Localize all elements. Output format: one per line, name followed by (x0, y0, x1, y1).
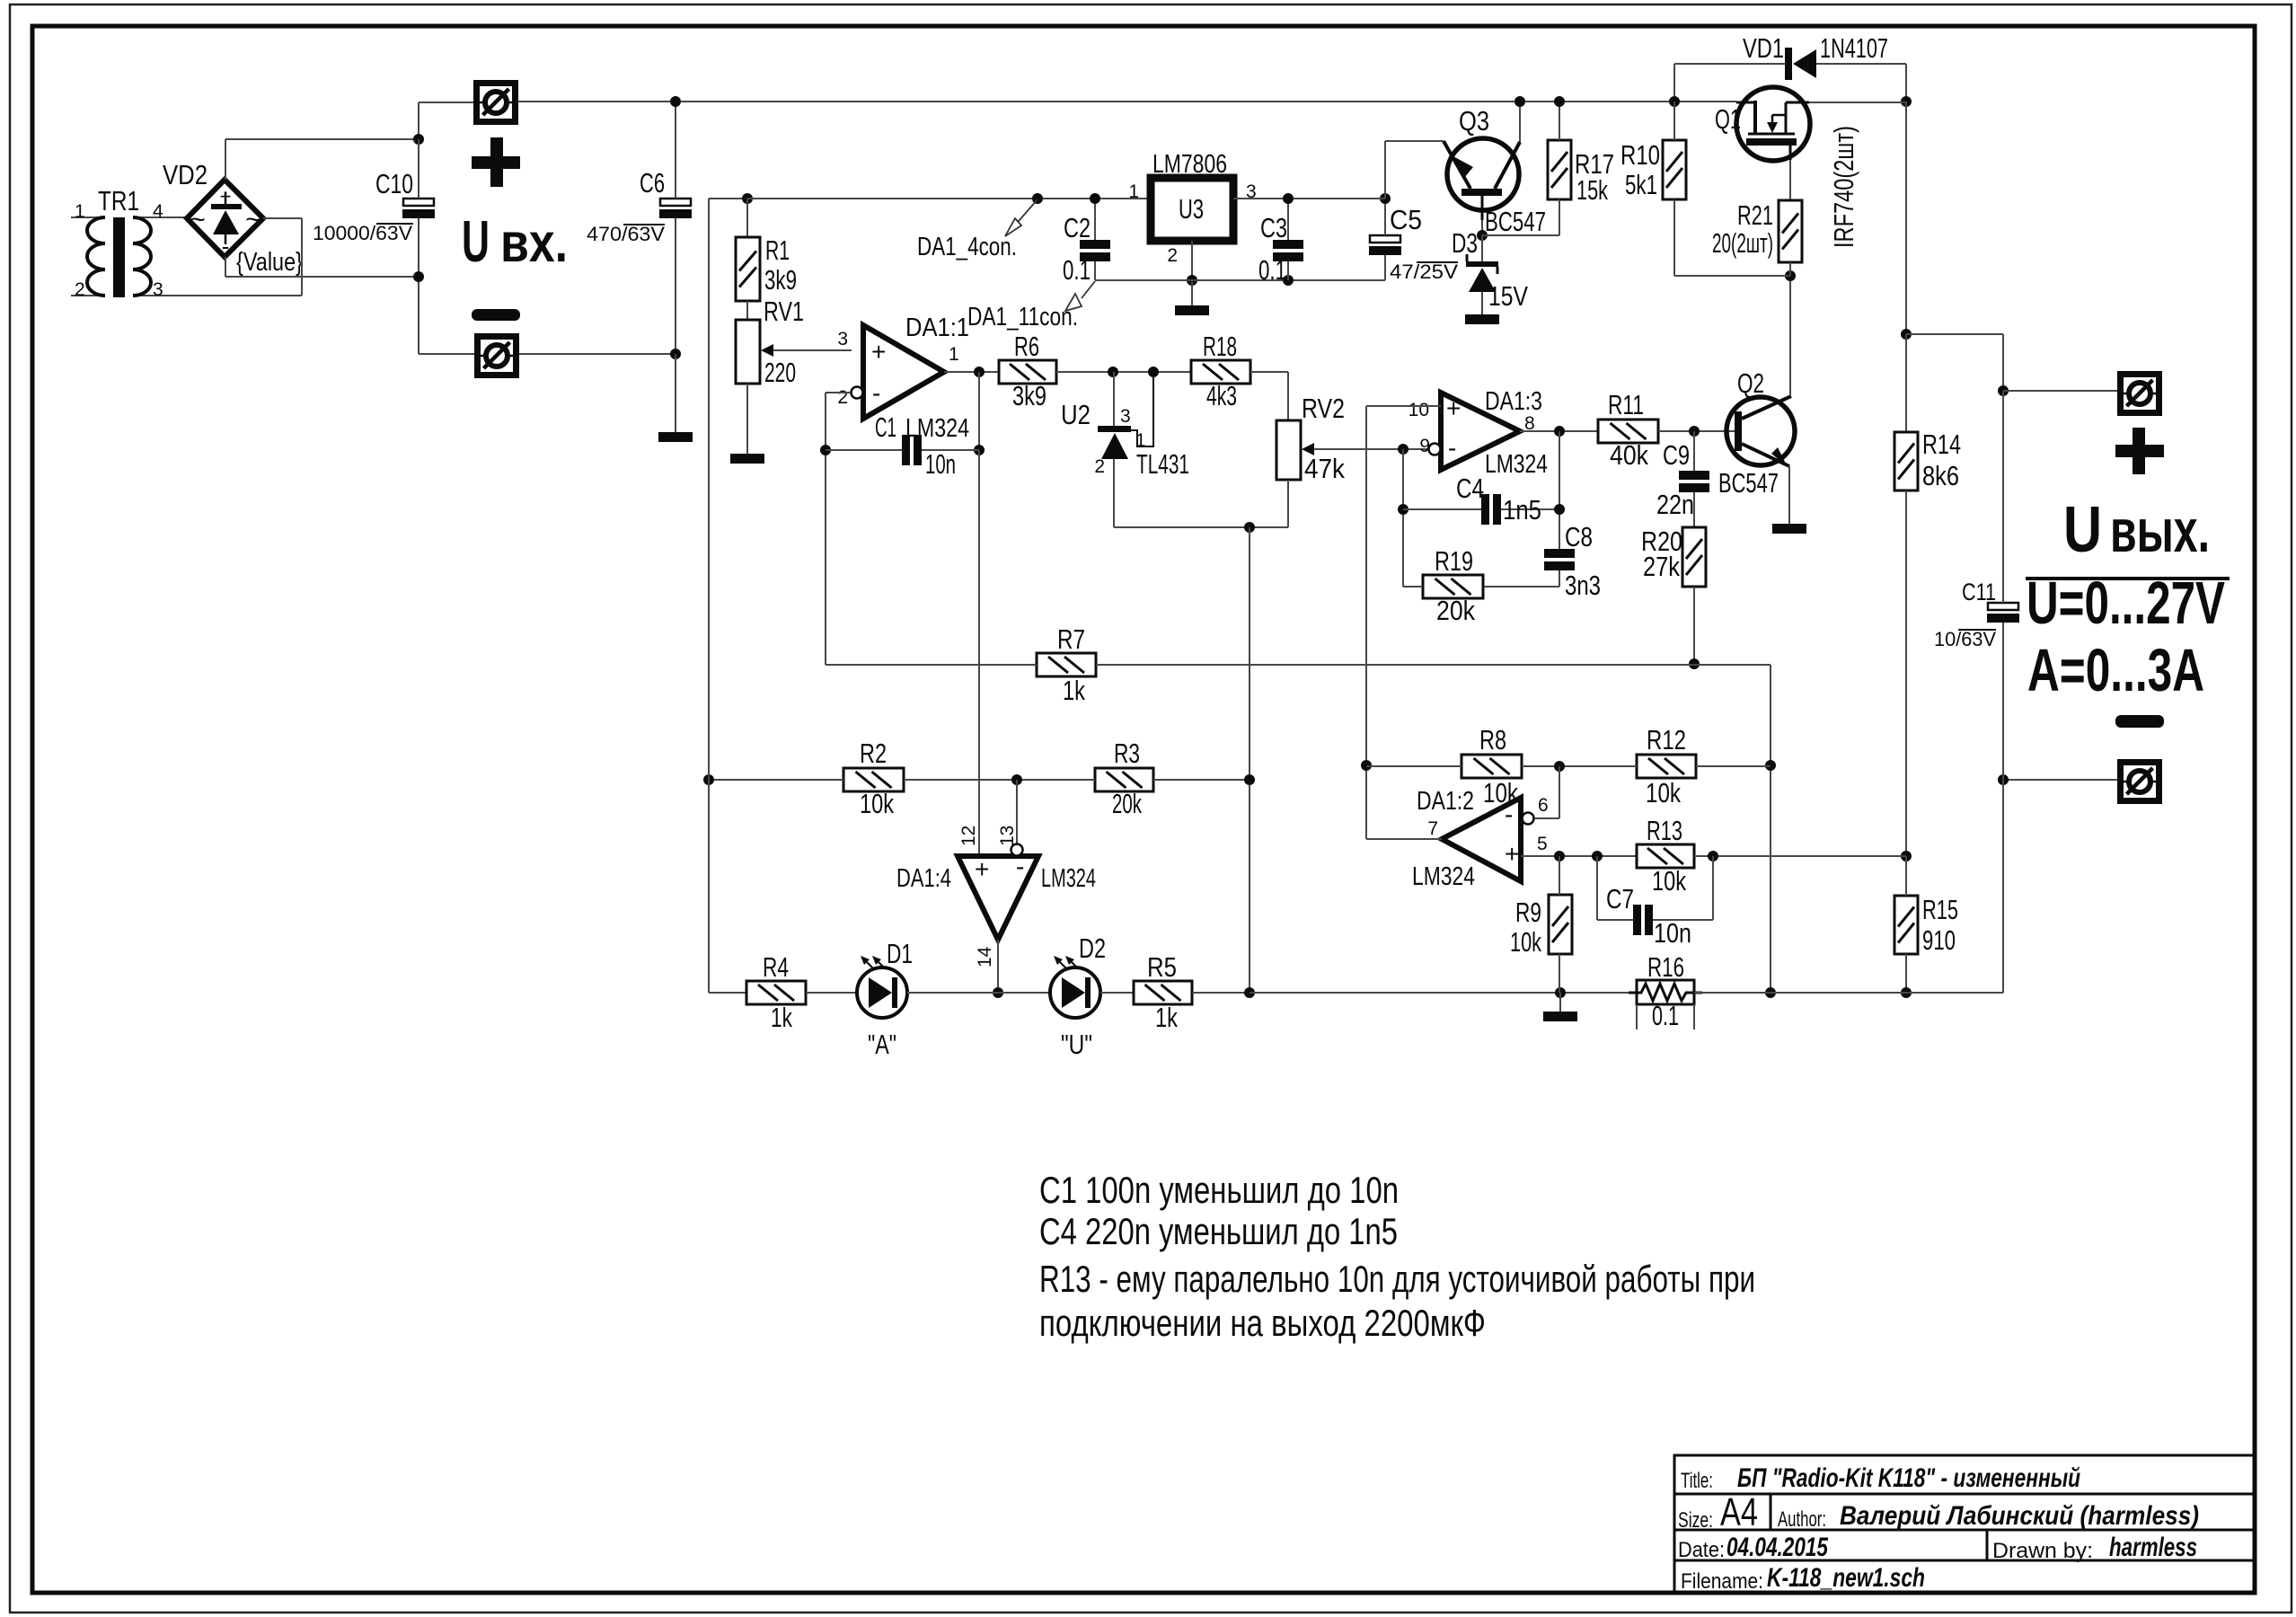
svg-text:-: - (872, 379, 880, 407)
svg-text:10000/63V: 10000/63V (313, 222, 412, 244)
svg-text:DA1:3: DA1:3 (1485, 387, 1542, 416)
output terminal + screw (2121, 375, 2159, 413)
svg-text:-: - (1448, 434, 1456, 462)
wire TL431 cathode (1113, 372, 1115, 426)
wire RV1 wiper (773, 349, 852, 351)
mosfet Q1 (1736, 87, 1810, 161)
svg-text:+: + (220, 185, 232, 208)
wire C1 left (826, 449, 902, 451)
junction DA1:1 out (974, 367, 985, 377)
svg-text:47/25V: 47/25V (1390, 261, 1458, 283)
wire C3 top (1287, 199, 1289, 240)
svg-text:5: 5 (1537, 834, 1548, 854)
wire pin10 DA1:3 (1366, 405, 1441, 407)
potentiometer RV2 (1276, 420, 1301, 480)
wire C6 to ground (675, 354, 676, 432)
op-amp DA1:4 (958, 856, 1038, 940)
svg-text:2: 2 (837, 387, 848, 408)
wire C7 right h (1653, 919, 1713, 921)
svg-text:0.1: 0.1 (1063, 254, 1091, 286)
junction out step (1901, 329, 1912, 340)
output terminal - screw (2121, 763, 2159, 801)
svg-text:DA1:1: DA1:1 (905, 314, 969, 342)
svg-text:R19: R19 (1435, 545, 1473, 577)
svg-text:20k: 20k (1436, 595, 1475, 626)
wire pin6 v (1559, 766, 1560, 818)
svg-text:C4: C4 (1456, 473, 1484, 504)
wire VD1 tap down (1673, 64, 1675, 102)
wire bridge - to C10 bottom node (225, 276, 419, 278)
svg-text:C3: C3 (1260, 212, 1287, 243)
wire R5 right (1192, 992, 1250, 994)
svg-text:R1: R1 (765, 234, 790, 266)
wire Q3 emitter h (1385, 140, 1444, 142)
svg-text:R21: R21 (1737, 199, 1773, 231)
overline C6 63V (623, 224, 665, 225)
wire terminal+ left (419, 102, 473, 103)
wire R1 to RV1 (746, 301, 748, 320)
pin 2 inversion circle DA1:1 (852, 387, 863, 399)
resistor R12 (1637, 755, 1696, 778)
wire gnd row (1095, 279, 1385, 281)
wire C9 bottom (1693, 492, 1695, 527)
wire C10 bottom (418, 218, 419, 277)
wire Q1 source right (1809, 102, 1906, 103)
svg-text:R11: R11 (1608, 389, 1644, 420)
wire terminal- right (519, 353, 676, 355)
junction U3 pin2 gnd (1187, 275, 1197, 286)
wire gnd stem (1191, 280, 1193, 305)
wire terminal- left corner v (418, 277, 419, 354)
wire R9 top (1559, 856, 1560, 895)
resistor R9 (1549, 895, 1572, 954)
junction C9 top (1689, 426, 1700, 437)
wire R6 right net (1056, 371, 1191, 373)
wire C1 right (922, 449, 979, 451)
overline C5 25V (1417, 261, 1458, 263)
junction R1 top (742, 193, 753, 204)
shunt resistor R16 (1637, 980, 1694, 1004)
wire pin2 down (825, 393, 826, 665)
svg-text:R10: R10 (1620, 139, 1660, 171)
wire DA1:1 out (944, 371, 999, 373)
pin 9 inversion circle DA1:3 (1429, 444, 1441, 455)
capacitor C2 (1080, 240, 1110, 249)
ground bar under U3 (1175, 305, 1209, 315)
wire C11 top (2002, 391, 2004, 603)
resistor R1 (736, 237, 760, 301)
svg-text:1k: 1k (1063, 675, 1085, 706)
output minus symbol (2115, 715, 2164, 728)
svg-text:470/63V: 470/63V (587, 223, 665, 245)
wire C9 top (1693, 431, 1695, 471)
svg-text:harmless: harmless (2109, 1533, 2197, 1562)
wire R19 right (1483, 586, 1559, 588)
op-amp DA1:1 (863, 325, 944, 419)
wire R16 right rail (1694, 992, 2003, 994)
wire C6 top (675, 102, 676, 199)
svg-text:7: 7 (1427, 818, 1438, 839)
wire out fb down (1559, 431, 1560, 549)
resistor R18 (1191, 360, 1250, 384)
svg-text:14: 14 (975, 946, 995, 968)
svg-text:DA1:2: DA1:2 (1417, 787, 1474, 816)
wire 6V vertical (708, 199, 710, 780)
svg-text:C8: C8 (1565, 521, 1593, 552)
svg-text:47k: 47k (1304, 453, 1345, 484)
wire D3 bottom (1481, 292, 1483, 314)
wire out top v (1905, 102, 1907, 334)
svg-text:IRF740(2шт): IRF740(2шт) (1828, 126, 1859, 248)
junction R2 R3 (1011, 774, 1022, 785)
wire TL431 anode row (1114, 526, 1288, 528)
wire bridge + to C10 node (225, 138, 419, 140)
pin 6 inversion circle DA1:2 (1523, 813, 1534, 825)
svg-text:-: - (222, 233, 230, 260)
junction C4 right (1554, 504, 1565, 515)
wire R8 R12 mid (1522, 765, 1637, 767)
junction C10 bottom node (413, 271, 424, 282)
svg-text:+: + (871, 338, 886, 366)
ground bar under D3 (1465, 314, 1499, 324)
capacitor C3 (1273, 240, 1303, 249)
svg-text:C1: C1 (875, 411, 896, 443)
junction Q1 source rail (1901, 96, 1912, 107)
TL431 pin1 link (1131, 374, 1153, 446)
svg-text:1k: 1k (771, 1002, 792, 1033)
transistor Q2 (1726, 397, 1795, 465)
wire U3 pin3 net (1233, 198, 1385, 199)
output separator line (2026, 577, 2230, 580)
svg-text:BC547: BC547 (1485, 206, 1546, 237)
svg-text:DA1_4con.: DA1_4con. (917, 233, 1017, 261)
wire out down to C1 (978, 372, 980, 450)
wire R12 right (1696, 765, 1771, 767)
svg-text:U3: U3 (1179, 193, 1204, 225)
svg-text:R12: R12 (1647, 724, 1686, 755)
resistor R11 (1598, 420, 1658, 443)
wire R1 top (746, 199, 748, 237)
wire D2 to R5 (1100, 992, 1134, 994)
svg-text:27k: 27k (1643, 551, 1680, 582)
resistor R10 (1663, 140, 1686, 199)
wire terminal- left corner h (419, 353, 474, 355)
wire R10 bottom h (1674, 275, 1790, 277)
capacitor C8 (1544, 549, 1575, 558)
svg-text:Валерий Лабинский (harmless): Валерий Лабинский (harmless) (1840, 1501, 2199, 1531)
svg-text:R7: R7 (1057, 623, 1085, 655)
wire C2 bottom (1094, 261, 1096, 280)
svg-text:04.04.2015: 04.04.2015 (1726, 1533, 1829, 1562)
svg-text:~: ~ (245, 205, 261, 234)
wire R3 right (1153, 779, 1250, 781)
svg-text:+: + (1446, 394, 1461, 422)
resistor R13 (1637, 844, 1694, 868)
svg-text:LM324: LM324 (1041, 864, 1096, 893)
wire 6V net corner (709, 198, 747, 199)
wire R17 bottom v (1559, 199, 1560, 235)
resistor R6 (999, 360, 1056, 384)
svg-text:C1 100n уменьшил до 10n: C1 100n уменьшил до 10n (1039, 1169, 1399, 1211)
junction C4 left (1398, 504, 1409, 515)
wire C2 top (1094, 199, 1096, 240)
wire C6 bottom (675, 218, 676, 354)
wire U3 pin2 (1191, 241, 1193, 280)
wire R2 R3 mid (904, 779, 1095, 781)
voltage regulator U3 LM7806 (1151, 178, 1233, 241)
ground bar under RV1 (730, 454, 764, 464)
wire C3 bottom (1287, 261, 1289, 280)
wire LED row left corner (709, 992, 746, 994)
svg-text:5k1: 5k1 (1625, 169, 1657, 200)
svg-text:TR1: TR1 (98, 185, 139, 216)
resistor R2 (843, 768, 904, 791)
resistor R15 (1894, 896, 1918, 954)
svg-text:VD1: VD1 (1743, 32, 1784, 64)
svg-text:+: + (975, 855, 989, 883)
junction out minus tap (1998, 774, 2009, 785)
wire R8 left (1366, 765, 1461, 767)
svg-text:15k: 15k (1576, 174, 1608, 206)
svg-text:DA1:4: DA1:4 (896, 864, 951, 893)
svg-text:~: ~ (190, 205, 206, 234)
svg-text:"U": "U" (1061, 1029, 1092, 1060)
svg-text:10k: 10k (1652, 865, 1686, 897)
junction C7 right (1708, 851, 1718, 862)
svg-text:3: 3 (1120, 406, 1131, 427)
junction anode row (1244, 522, 1255, 533)
op-amp DA1:2 (1442, 798, 1521, 881)
wire VD1 left (1674, 63, 1785, 65)
svg-text:R18: R18 (1203, 331, 1237, 362)
junction R9 top (1554, 851, 1565, 862)
svg-text:C7: C7 (1606, 883, 1634, 915)
svg-text:R2: R2 (860, 738, 887, 769)
svg-text:R9: R9 (1515, 897, 1541, 928)
svg-text:U: U (2063, 494, 2102, 566)
svg-text:15V: 15V (1488, 280, 1528, 312)
wire R18 to RV2 h (1250, 371, 1288, 373)
wire fb down (1402, 449, 1404, 587)
svg-text:R13: R13 (1647, 815, 1682, 846)
svg-text:10n: 10n (925, 448, 956, 480)
junction R9 ground (1555, 987, 1566, 998)
wire C7 right v (1712, 856, 1714, 920)
svg-text:Q3: Q3 (1459, 105, 1489, 137)
wire to plus terminal (2003, 390, 2117, 392)
wire DA1:3 out (1520, 430, 1598, 432)
resistor R17 (1548, 140, 1571, 199)
ground bar under C6 (658, 432, 693, 442)
wire R7 left (826, 664, 1037, 666)
overline C11 63V (1958, 629, 1996, 631)
wire R21 bottom (1789, 262, 1791, 276)
wire pin13 v (1016, 780, 1018, 844)
input terminal + screw (477, 84, 516, 122)
junction C6 bottom rail (670, 349, 681, 359)
wire RV1 to ground (746, 384, 748, 454)
capacitor C9 (1679, 471, 1709, 480)
wire R11 to Q2 (1658, 430, 1735, 432)
wire out step h (1906, 333, 2003, 335)
input terminal - screw (478, 337, 517, 376)
junction R8 R12 (1554, 761, 1565, 772)
wire C7 left v (1596, 856, 1598, 920)
junction R20 rail (1689, 658, 1700, 669)
wire R13 right (1694, 855, 1906, 857)
svg-text:C4 220n уменьшил до 1n5: C4 220n уменьшил до 1n5 (1039, 1210, 1398, 1252)
resistor R21 (1779, 200, 1802, 262)
svg-text:RV2: RV2 (1302, 393, 1345, 424)
wire 6V net to U3 (747, 198, 1151, 199)
svg-text:20(2шт): 20(2шт) (1712, 227, 1773, 259)
wire C4 left (1403, 508, 1481, 510)
junction TL431 pin1 net (1148, 367, 1159, 377)
wire C11 bottom (2002, 623, 2004, 780)
svg-text:Filename:: Filename: (1681, 1569, 1763, 1594)
svg-text:RV1: RV1 (764, 296, 804, 327)
capacitor C10 (403, 199, 434, 206)
svg-text:R15: R15 (1922, 894, 1958, 925)
wire R18 to RV2 v (1287, 372, 1289, 420)
svg-text:LM324: LM324 (1485, 450, 1548, 479)
svg-text:3: 3 (153, 279, 163, 300)
svg-text:8k6: 8k6 (1922, 460, 1959, 491)
svg-text:910: 910 (1922, 924, 1956, 956)
wire pin6 h (1534, 817, 1559, 819)
wire bridge + up (225, 139, 226, 180)
wire R15 bottom (1905, 954, 1907, 993)
svg-text:R5: R5 (1147, 951, 1177, 983)
svg-text:Drawn by:: Drawn by: (1992, 1539, 2093, 1563)
svg-text:LM7806: LM7806 (1152, 150, 1227, 179)
junction LED row (993, 987, 1003, 998)
annotation arrow DA1_11con (1082, 281, 1095, 298)
junction R14 R15 (1901, 851, 1912, 862)
pin 13 inversion circle DA1:4 (1011, 844, 1023, 856)
wire D3 top (1481, 235, 1483, 261)
wire VD1 right (1816, 63, 1906, 65)
junction C7 left (1592, 851, 1603, 862)
svg-text:3: 3 (837, 329, 848, 349)
wire minus rail corner (1906, 992, 2003, 994)
svg-text:D2: D2 (1079, 932, 1106, 964)
junction Q3 collector rail (1514, 96, 1525, 107)
wire R17 top (1559, 102, 1560, 140)
wire Q2 collector (1789, 276, 1791, 396)
wire RV2 wiper (1314, 448, 1430, 450)
wire D1 to node (907, 992, 1050, 994)
svg-text:"A": "A" (868, 1029, 896, 1060)
wire minus rail v (2002, 780, 2004, 993)
wire pin7 out (1366, 838, 1442, 840)
svg-text:R13 - ему паралельно 10n для у: R13 - ему паралельно 10n для устоичивой … (1039, 1258, 1755, 1300)
wire pin10 down (1365, 406, 1367, 839)
wire R7 right rail (1096, 664, 1771, 666)
junction D3 node (1477, 230, 1488, 241)
svg-text:вх.: вх. (500, 212, 568, 273)
resistor R14 (1894, 432, 1918, 490)
ground bar under R9 (1543, 1012, 1577, 1021)
svg-text:TL431: TL431 (1136, 448, 1189, 480)
wire Q2 emitter (1788, 466, 1790, 524)
wire Q1 to R21 (1789, 160, 1791, 200)
wire R17 bottom h (1482, 234, 1559, 236)
svg-text:1N4107: 1N4107 (1820, 32, 1888, 64)
wire R19 left (1403, 586, 1423, 588)
svg-text:10: 10 (1409, 400, 1429, 420)
wire R10 bottom v (1673, 199, 1675, 276)
svg-text:BC547: BC547 (1718, 467, 1779, 499)
svg-text:40k: 40k (1610, 439, 1648, 471)
svg-text:C9: C9 (1663, 439, 1690, 471)
svg-text:R3: R3 (1114, 738, 1140, 769)
wire out step v (2002, 334, 2004, 391)
junction C3 gnd (1283, 275, 1294, 286)
wire to minus terminal (2003, 779, 2117, 781)
svg-text:U2: U2 (1061, 399, 1091, 430)
capacitor C11 (1988, 603, 2018, 610)
svg-text:1: 1 (1135, 430, 1146, 451)
resistor R20 (1682, 527, 1706, 587)
svg-text:3n3: 3n3 (1565, 570, 1601, 601)
wire pin14 out (997, 940, 999, 993)
capacitor C1 (902, 435, 910, 465)
junction R15 rail (1901, 987, 1912, 998)
svg-text:C5: C5 (1390, 204, 1422, 235)
svg-text:220: 220 (764, 357, 796, 388)
junction C5 node (1380, 193, 1391, 204)
zener diode D3 (1466, 261, 1498, 267)
junction sense rail bottom (1765, 987, 1776, 998)
wire sense vertical x1391 (1249, 527, 1250, 993)
svg-text:-: - (1505, 800, 1513, 828)
svg-text:Title:: Title: (1681, 1469, 1713, 1493)
svg-text:U: U (462, 208, 490, 274)
svg-text:D3: D3 (1452, 227, 1478, 259)
wire R2 left (709, 779, 843, 781)
svg-text:Q1: Q1 (1715, 103, 1741, 135)
wire C5 top (1384, 199, 1386, 235)
svg-text:Q2: Q2 (1737, 367, 1764, 399)
junction R3 sense (1244, 774, 1255, 785)
wire C10 top (418, 139, 419, 199)
wire terminal+ right (518, 101, 1736, 102)
wire bridge ~ right over (263, 217, 302, 219)
svg-text:1n5: 1n5 (1503, 494, 1541, 526)
svg-text:VD2: VD2 (163, 159, 208, 190)
svg-text:1: 1 (75, 201, 85, 222)
wire R4 to D1 (806, 992, 857, 994)
svg-text:10k: 10k (1510, 926, 1541, 958)
svg-text:DA1_11con.: DA1_11con. (967, 303, 1078, 331)
capacitor C4 (1481, 494, 1489, 525)
junction DA1 pin4 tap (1032, 193, 1043, 204)
transistor Q3 (1447, 138, 1519, 210)
svg-text:БП "Radio-Kit K118" - измененн: БП "Radio-Kit K118" - измененный (1737, 1463, 2080, 1493)
resistor R19 (1423, 575, 1483, 598)
wire R15 top (1905, 856, 1907, 896)
svg-text:C10: C10 (375, 168, 413, 199)
svg-text:R8: R8 (1479, 724, 1506, 755)
svg-text:10k: 10k (1646, 777, 1681, 808)
resistor R7 (1037, 653, 1096, 676)
junction C2 rail (1090, 193, 1100, 204)
wire bottom rail mid (1250, 992, 1637, 994)
svg-text:D1: D1 (887, 938, 913, 969)
ground bar under Q2 (1772, 524, 1806, 534)
resistor R3 (1095, 768, 1153, 791)
